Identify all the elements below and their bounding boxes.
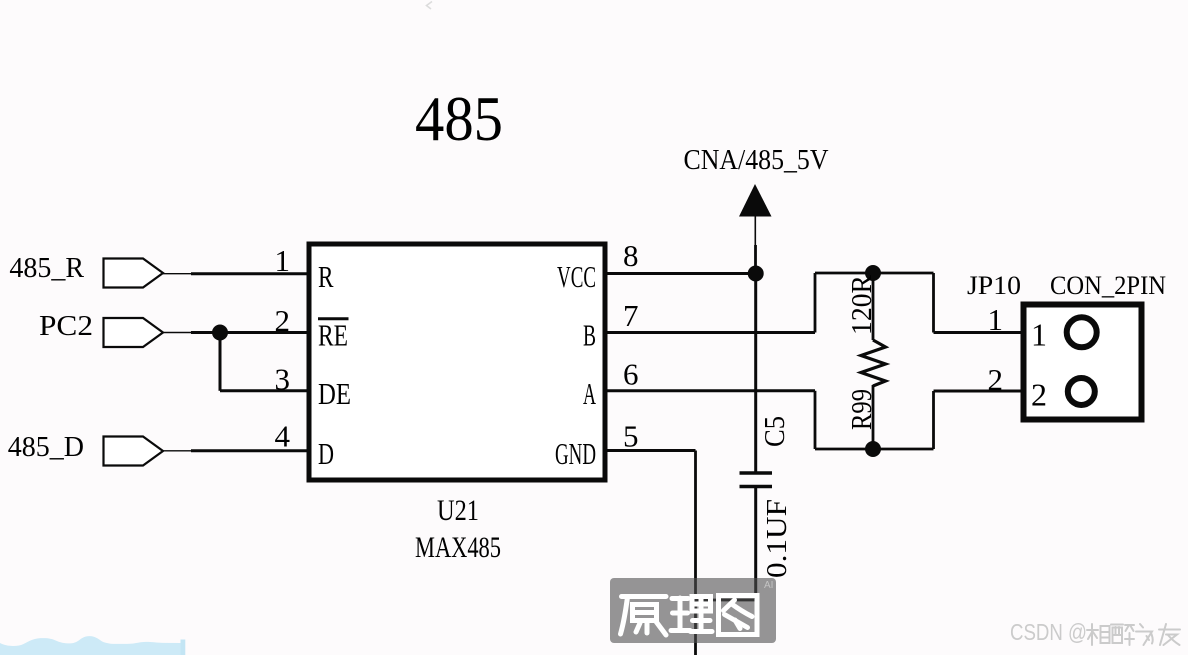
junction dot VCC node [748, 266, 764, 282]
JP10 pin1 circle [1067, 317, 1097, 347]
wire A jog up [932, 391, 935, 449]
svg-text:CSDN @: CSDN @ [1010, 619, 1087, 645]
svg-text:MAX485: MAX485 [415, 531, 501, 564]
watermark gray box [610, 578, 776, 643]
faint top mark [427, 2, 433, 10]
svg-text:RE: RE [318, 318, 348, 353]
resistor R99 zigzag [861, 340, 886, 386]
wire DE branch vertical [219, 333, 222, 391]
svg-text:U21: U21 [437, 494, 479, 527]
svg-text:B: B [583, 318, 596, 353]
junction dot resistor top [865, 265, 881, 281]
power symbol arrow [739, 184, 772, 217]
wire pin4 D [163, 450, 193, 452]
svg-text:PC2: PC2 [39, 311, 93, 342]
svg-text:2: 2 [1031, 377, 1047, 413]
svg-text:GND: GND [555, 436, 596, 471]
svg-text:VCC: VCC [557, 259, 596, 294]
svg-text:AI: AI [764, 580, 773, 591]
JP10 pin2 circle [1068, 378, 1095, 405]
svg-text:1: 1 [1031, 317, 1047, 353]
port flag PC2 [104, 318, 164, 347]
wire pin7 B to jog [605, 331, 815, 334]
svg-text:2: 2 [275, 303, 291, 338]
svg-text:0.1UF: 0.1UF [761, 499, 793, 578]
svg-text:2: 2 [988, 362, 1004, 397]
wire cap bottom link [696, 599, 756, 602]
junction dot resistor bottom [865, 441, 881, 457]
svg-text:485_R: 485_R [9, 253, 84, 284]
wire pin2 RE [163, 332, 193, 334]
svg-text:5: 5 [623, 419, 639, 454]
svg-text:4: 4 [275, 419, 291, 454]
wire pin8 VCC [605, 272, 757, 275]
wire B to JP10 pin1 [934, 331, 1022, 334]
svg-text:D: D [318, 436, 334, 471]
capacitor C5 bottom lead [754, 488, 757, 600]
wire pin6 A to jog [605, 389, 815, 392]
svg-text:7: 7 [623, 298, 639, 333]
wire pin5 GND [605, 449, 696, 452]
svg-text:3: 3 [275, 362, 291, 397]
wire pin3 DE [220, 389, 309, 392]
IC U21 MAX485 body [309, 244, 605, 480]
wire A to JP10 pin2 [934, 390, 1022, 393]
connector JP10 body [1024, 305, 1142, 420]
bottom decorative strip [0, 636, 181, 655]
power stem wire [754, 216, 756, 245]
svg-text:1: 1 [988, 302, 1004, 337]
svg-text:A: A [583, 376, 596, 411]
svg-text:R: R [318, 259, 334, 294]
port flag 485_R [104, 259, 164, 288]
wire B jog down [932, 273, 935, 333]
svg-text:8: 8 [623, 238, 639, 273]
svg-text:CNA/485_5V: CNA/485_5V [684, 144, 829, 176]
svg-text:DE: DE [318, 376, 351, 411]
watermark text 原理图 (drawn strokes) [621, 596, 758, 636]
wire pin1 R [163, 273, 193, 275]
capacitor C5 plates [740, 471, 773, 475]
svg-text:C5: C5 [759, 416, 791, 447]
capacitor C5 top lead [754, 274, 757, 472]
wire A bottom rail [815, 448, 934, 451]
resistor R99 leads [872, 273, 875, 340]
svg-text:R99: R99 [846, 389, 878, 430]
junction dot PC2 node [212, 325, 228, 341]
wire GND down [694, 451, 697, 655]
port flag 485_D [104, 437, 164, 466]
svg-text:485: 485 [415, 84, 503, 154]
svg-text:CON_2PIN: CON_2PIN [1050, 271, 1166, 300]
svg-text:485_D: 485_D [8, 432, 84, 463]
svg-text:6: 6 [623, 357, 639, 392]
wire A jog down [814, 391, 817, 449]
svg-text:120R: 120R [846, 274, 878, 335]
svg-text:JP10: JP10 [967, 271, 1021, 300]
pin label RE overline [318, 317, 349, 320]
svg-text:1: 1 [275, 243, 291, 278]
wire B top rail [815, 272, 934, 275]
wire B jog up [814, 273, 817, 333]
